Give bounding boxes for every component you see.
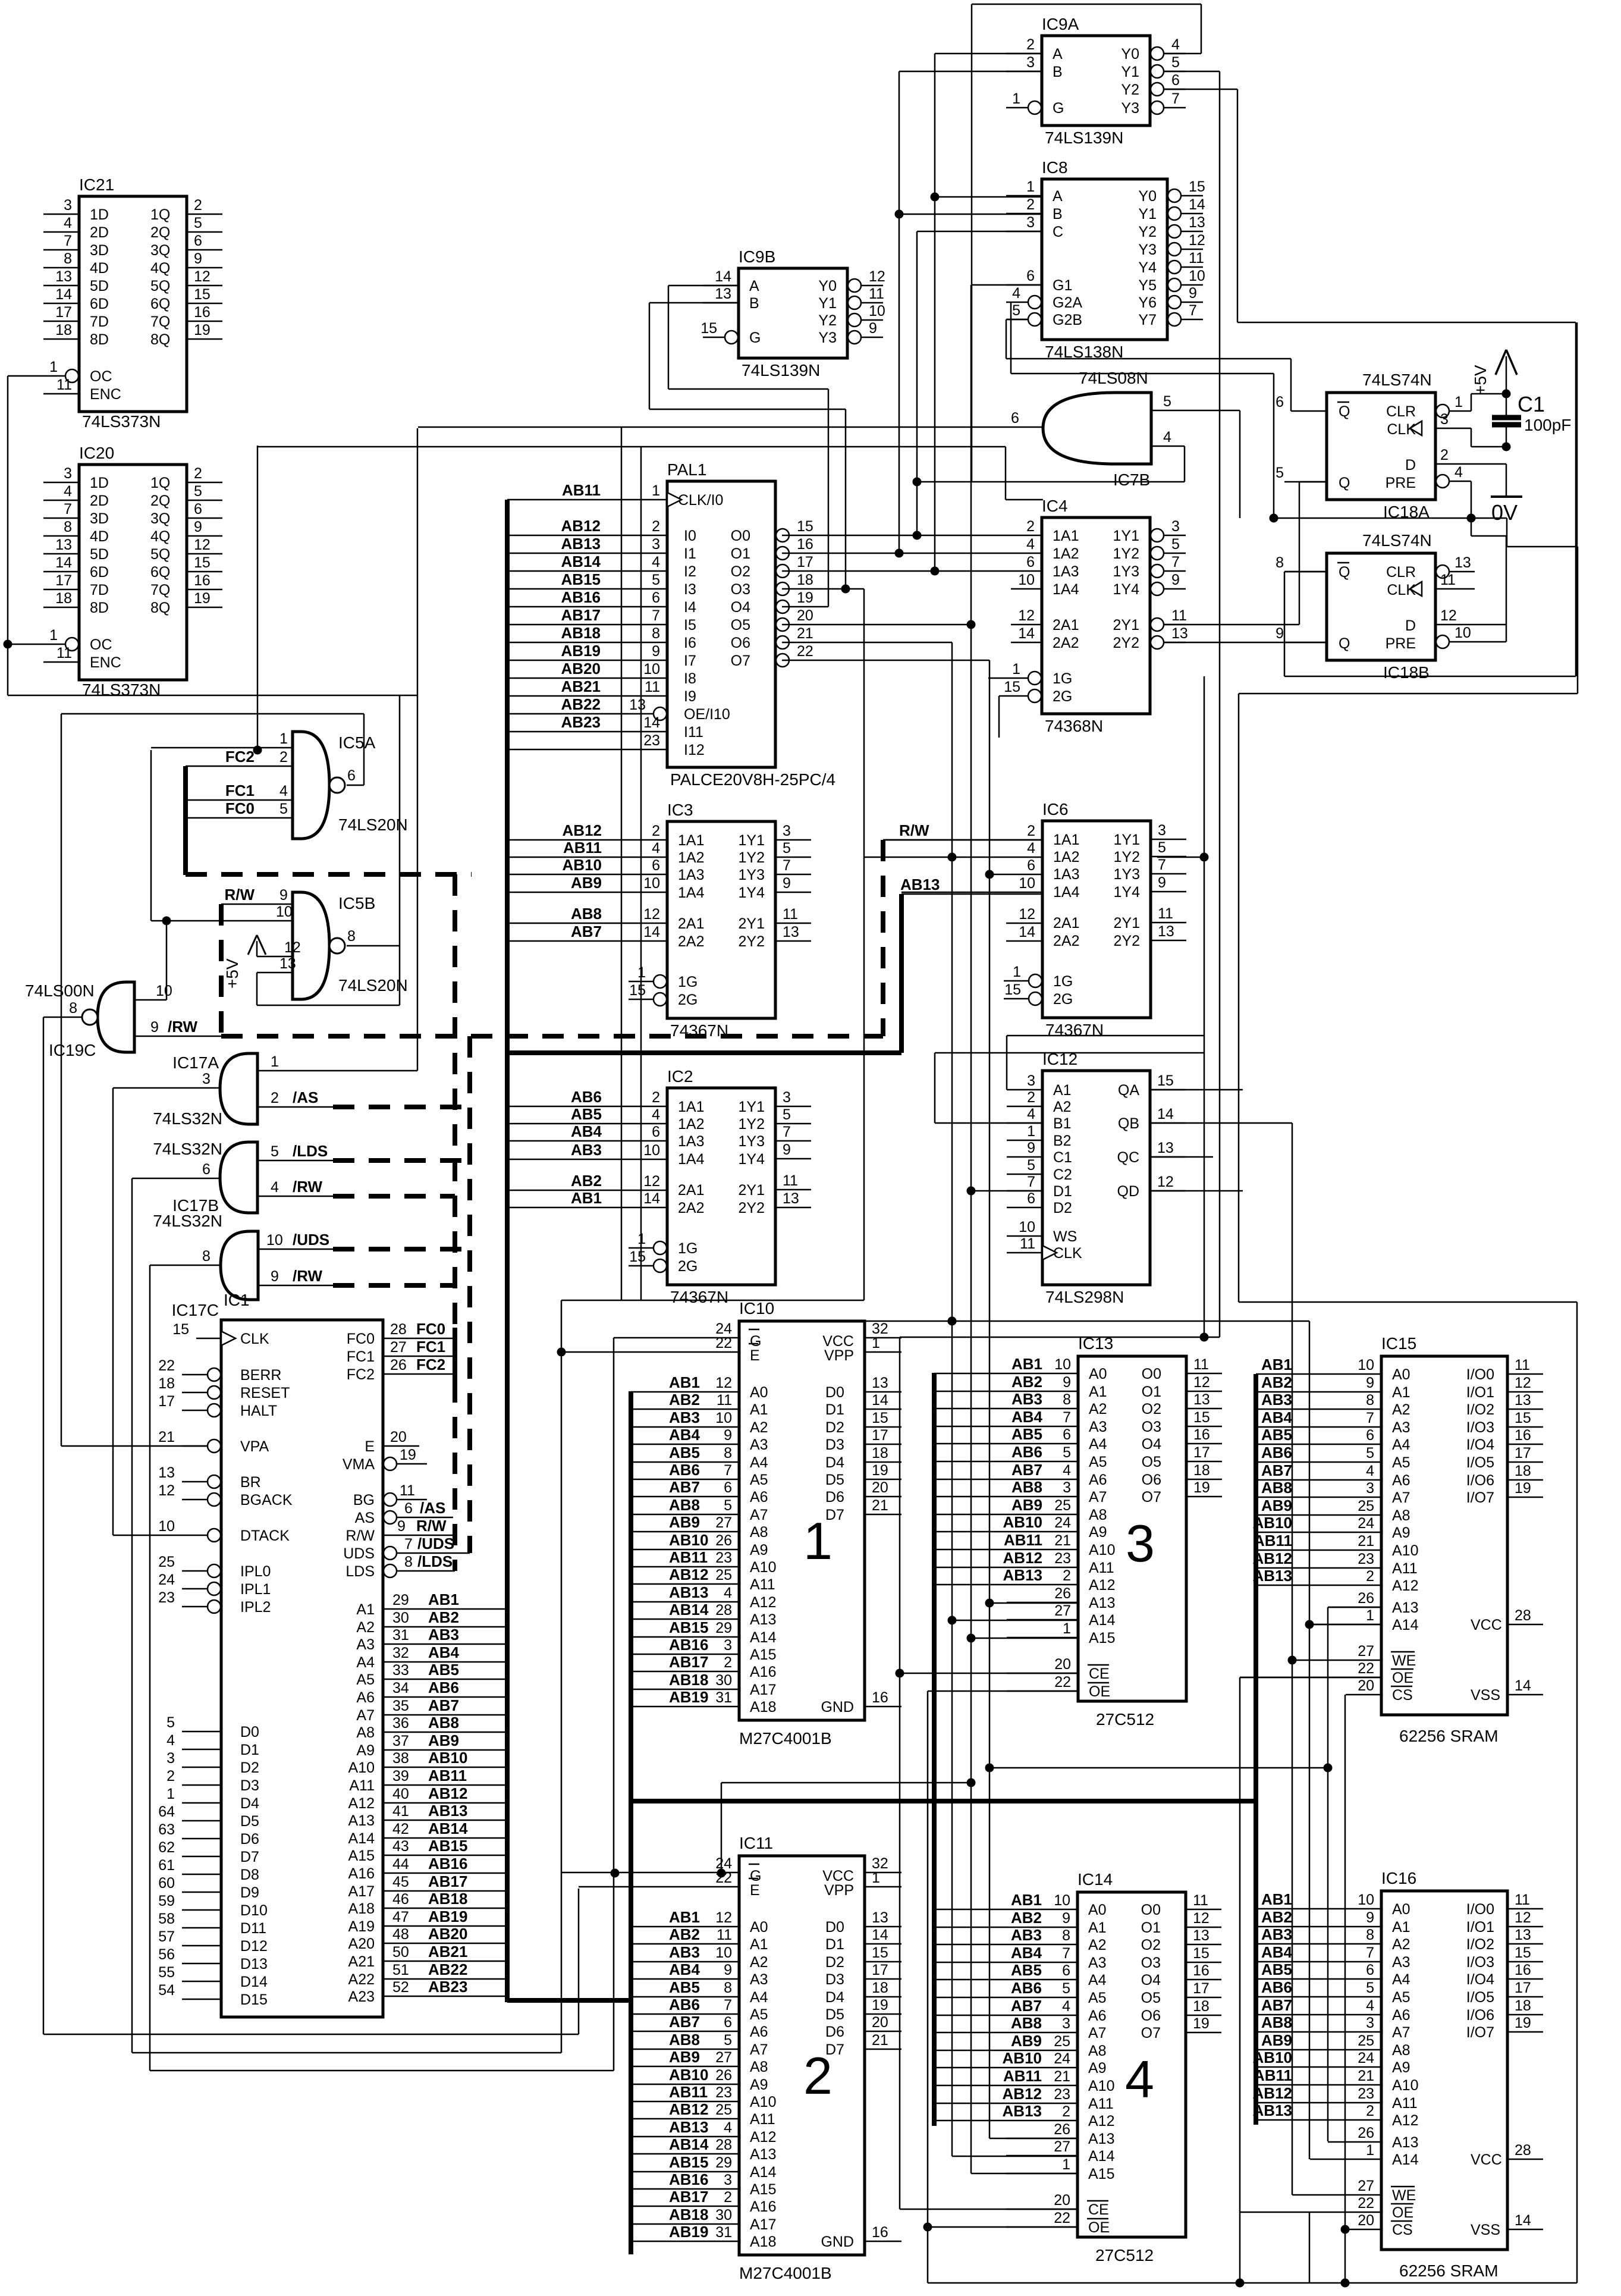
svg-text:2: 2 [652, 518, 660, 535]
svg-text:15: 15 [172, 1321, 189, 1338]
svg-text:24: 24 [1358, 2050, 1374, 2066]
svg-text:IC1: IC1 [224, 1291, 250, 1309]
svg-text:17: 17 [1515, 1445, 1531, 1461]
svg-text:25: 25 [158, 1554, 175, 1570]
svg-text:27: 27 [715, 1514, 732, 1531]
svg-text:2Y1: 2Y1 [1113, 617, 1139, 633]
svg-text:AB13: AB13 [428, 1802, 467, 1820]
svg-text:AB7: AB7 [1261, 1996, 1292, 2014]
svg-text:2Y2: 2Y2 [1113, 635, 1139, 651]
svg-text:D: D [1405, 617, 1416, 634]
svg-text:13: 13 [1158, 923, 1174, 940]
svg-text:3: 3 [724, 1637, 732, 1654]
svg-text:A13: A13 [1088, 2131, 1114, 2147]
svg-text:2A2: 2A2 [1053, 933, 1079, 949]
svg-text:6: 6 [194, 233, 202, 249]
svg-text:A16: A16 [750, 1664, 776, 1680]
svg-text:8Q: 8Q [150, 600, 170, 616]
svg-text:3Q: 3Q [150, 510, 170, 527]
svg-text:1A4: 1A4 [1053, 581, 1079, 598]
svg-text:AB8: AB8 [571, 905, 602, 923]
svg-text:30: 30 [715, 2207, 732, 2223]
svg-text:AB15: AB15 [428, 1837, 467, 1855]
svg-text:A4: A4 [750, 1454, 768, 1471]
svg-text:25: 25 [1358, 2032, 1374, 2049]
svg-text:7: 7 [1063, 1409, 1071, 1426]
svg-text:12: 12 [194, 268, 211, 285]
svg-text:9: 9 [1366, 1375, 1374, 1391]
svg-text:13: 13 [872, 1375, 888, 1391]
svg-text:23: 23 [715, 1550, 732, 1566]
svg-text:5: 5 [724, 1497, 732, 1514]
svg-text:A14: A14 [750, 2164, 777, 2181]
svg-text:5: 5 [1366, 1445, 1374, 1461]
svg-text:1D: 1D [90, 475, 109, 491]
svg-text:12: 12 [1157, 1174, 1174, 1190]
svg-text:1Y3: 1Y3 [1114, 866, 1140, 883]
svg-text:A4: A4 [1392, 1436, 1410, 1453]
svg-text:A14: A14 [1392, 1617, 1419, 1633]
svg-text:10: 10 [1054, 1892, 1070, 1909]
svg-text:3D: 3D [90, 242, 109, 259]
svg-text:5Q: 5Q [150, 546, 170, 563]
svg-text:7: 7 [404, 1536, 413, 1552]
svg-text:AB7: AB7 [669, 1478, 700, 1496]
svg-text:A8: A8 [750, 2059, 768, 2075]
svg-text:16: 16 [194, 304, 211, 321]
svg-text:D0: D0 [825, 1384, 844, 1401]
svg-text:Q: Q [1339, 403, 1350, 420]
svg-text:11: 11 [645, 679, 660, 695]
svg-text:11: 11 [400, 1482, 415, 1499]
svg-text:AB10: AB10 [1003, 2049, 1042, 2067]
svg-text:Q: Q [1339, 475, 1350, 491]
svg-text:AB17: AB17 [669, 1653, 708, 1671]
svg-text:AB5: AB5 [428, 1661, 459, 1679]
svg-text:AB2: AB2 [1261, 1373, 1292, 1391]
svg-text:18: 18 [55, 590, 72, 607]
svg-text:5: 5 [724, 2032, 732, 2049]
svg-text:1A3: 1A3 [1053, 866, 1079, 883]
svg-text:AB9: AB9 [1011, 1496, 1042, 1514]
svg-text:I/O7: I/O7 [1466, 2024, 1494, 2041]
svg-text:16: 16 [872, 1689, 888, 1706]
svg-text:Q: Q [1339, 635, 1350, 652]
svg-text:4D: 4D [90, 260, 109, 277]
svg-text:41: 41 [392, 1803, 409, 1820]
svg-text:CS: CS [1392, 1687, 1413, 1704]
svg-text:+5V: +5V [1471, 365, 1490, 395]
svg-text:17: 17 [1515, 1980, 1531, 1996]
svg-text:13: 13 [783, 1190, 799, 1207]
svg-text:7: 7 [1366, 1944, 1374, 1961]
svg-text:AB11: AB11 [562, 481, 601, 499]
svg-text:A0: A0 [750, 1384, 768, 1401]
svg-text:31: 31 [392, 1627, 409, 1643]
svg-text:10: 10 [266, 1232, 283, 1249]
svg-text:16: 16 [1193, 1426, 1210, 1443]
svg-text:AB3: AB3 [1011, 1390, 1042, 1408]
svg-text:21: 21 [872, 2032, 888, 2049]
svg-text:AB20: AB20 [428, 1925, 467, 1943]
svg-text:VCC: VCC [1471, 1617, 1502, 1633]
svg-text:29: 29 [392, 1592, 409, 1608]
svg-text:O0: O0 [1141, 1902, 1161, 1918]
svg-text:A5: A5 [750, 2006, 768, 2023]
svg-text:10: 10 [869, 303, 885, 319]
svg-text:2: 2 [1440, 447, 1449, 463]
svg-text:AB15: AB15 [669, 2153, 708, 2171]
svg-text:O7: O7 [731, 653, 750, 669]
svg-text:AB12: AB12 [563, 821, 602, 839]
svg-text:VMA: VMA [343, 1456, 375, 1473]
svg-text:O3: O3 [731, 581, 750, 598]
svg-text:AB5: AB5 [571, 1105, 602, 1123]
svg-text:1Y3: 1Y3 [739, 1133, 765, 1150]
svg-text:A13: A13 [750, 2146, 776, 2163]
svg-text:10: 10 [276, 904, 293, 920]
svg-text:R/W: R/W [224, 886, 255, 904]
svg-text:7: 7 [1062, 1945, 1070, 1962]
svg-text:28: 28 [1515, 2142, 1531, 2159]
svg-text:42: 42 [392, 1821, 409, 1837]
svg-text:23: 23 [715, 2084, 732, 2101]
svg-text:C1: C1 [1053, 1149, 1072, 1166]
svg-text:6: 6 [1027, 1190, 1035, 1207]
svg-text:D6: D6 [825, 1489, 844, 1505]
svg-text:AB2: AB2 [1011, 1909, 1042, 1927]
svg-text:1: 1 [803, 1511, 833, 1570]
svg-text:6D: 6D [90, 296, 109, 312]
svg-text:/LDS: /LDS [293, 1142, 328, 1160]
svg-text:14: 14 [55, 554, 72, 571]
svg-text:1A1: 1A1 [1053, 528, 1079, 544]
svg-text:1: 1 [271, 1053, 279, 1070]
svg-text:28: 28 [390, 1321, 407, 1338]
svg-text:RESET: RESET [240, 1385, 290, 1401]
svg-text:2Y1: 2Y1 [739, 915, 765, 932]
svg-text:AB13: AB13 [900, 876, 940, 893]
svg-text:11: 11 [869, 286, 884, 302]
svg-text:A1: A1 [356, 1601, 375, 1618]
svg-text:D7: D7 [240, 1849, 259, 1865]
svg-text:O7: O7 [1141, 2025, 1161, 2041]
svg-text:CLR: CLR [1386, 564, 1416, 581]
svg-text:19: 19 [1515, 2015, 1531, 2031]
svg-text:15: 15 [797, 518, 813, 535]
svg-text:58: 58 [158, 1911, 175, 1927]
svg-text:14: 14 [1515, 1677, 1531, 1694]
svg-text:AB7: AB7 [1261, 1461, 1292, 1479]
svg-text:6: 6 [1026, 268, 1035, 284]
svg-text:A15: A15 [750, 2181, 776, 2198]
svg-text:26: 26 [1054, 2121, 1070, 2138]
svg-text:26: 26 [1054, 1585, 1071, 1602]
svg-text:IC16: IC16 [1381, 1869, 1416, 1887]
svg-text:1Y2: 1Y2 [1113, 545, 1139, 562]
svg-text:31: 31 [715, 2224, 732, 2241]
svg-text:11: 11 [1193, 1356, 1209, 1373]
svg-text:OE: OE [1088, 2219, 1110, 2236]
svg-text:O6: O6 [731, 635, 750, 651]
svg-text:GND: GND [821, 1699, 854, 1715]
svg-text:2G: 2G [678, 1258, 698, 1275]
svg-text:IPL0: IPL0 [240, 1563, 271, 1580]
svg-text:10: 10 [1019, 1219, 1035, 1235]
svg-text:5: 5 [1027, 1157, 1035, 1174]
svg-text:A11: A11 [750, 1576, 775, 1593]
svg-text:CE: CE [1089, 1665, 1110, 1682]
svg-text:14: 14 [643, 714, 660, 731]
svg-text:OE: OE [1392, 2204, 1413, 2221]
svg-text:15: 15 [1515, 1410, 1531, 1426]
svg-text:22: 22 [1054, 2210, 1070, 2226]
svg-text:23: 23 [1054, 1550, 1071, 1567]
svg-text:A10: A10 [348, 1759, 375, 1776]
svg-text:2Q: 2Q [150, 493, 170, 509]
svg-text:AB10: AB10 [563, 856, 602, 874]
svg-text:7: 7 [1171, 554, 1180, 570]
svg-text:G: G [749, 330, 761, 346]
svg-text:AB8: AB8 [1011, 2014, 1042, 2032]
svg-text:FC2: FC2 [347, 1366, 375, 1383]
svg-text:2: 2 [1366, 1568, 1374, 1585]
svg-text:CLR: CLR [1386, 403, 1416, 420]
svg-text:20: 20 [872, 2014, 888, 2031]
svg-text:74LS08N: 74LS08N [1079, 369, 1148, 387]
svg-text:A8: A8 [356, 1724, 375, 1741]
svg-text:R/W: R/W [899, 821, 929, 839]
svg-text:/RW: /RW [293, 1267, 323, 1285]
svg-text:9: 9 [1027, 1140, 1035, 1156]
svg-text:AB11: AB11 [1254, 1532, 1292, 1550]
svg-text:A11: A11 [1392, 2095, 1418, 2112]
svg-text:20: 20 [1358, 2212, 1374, 2229]
svg-text:FC0: FC0 [225, 799, 255, 817]
svg-text:A0: A0 [1088, 1902, 1107, 1918]
svg-text:CE: CE [1088, 2201, 1109, 2218]
svg-text:A0: A0 [1392, 1901, 1410, 1918]
svg-text:2: 2 [652, 823, 660, 839]
svg-text:BG: BG [353, 1492, 375, 1508]
svg-text:AB1: AB1 [428, 1591, 459, 1608]
svg-text:62256 SRAM: 62256 SRAM [1399, 1727, 1499, 1745]
svg-text:D5: D5 [240, 1813, 259, 1830]
svg-text:12: 12 [1440, 607, 1457, 624]
svg-text:20: 20 [1054, 1656, 1071, 1673]
svg-text:74LS373N: 74LS373N [82, 680, 161, 699]
svg-text:VSS: VSS [1471, 1687, 1500, 1704]
svg-text:19: 19 [194, 590, 211, 607]
svg-text:D3: D3 [825, 1436, 844, 1453]
svg-text:46: 46 [392, 1891, 409, 1908]
svg-text:FC1: FC1 [347, 1348, 375, 1365]
svg-text:1Y1: 1Y1 [1114, 832, 1140, 848]
svg-text:A4: A4 [1088, 1972, 1107, 1988]
svg-text:AB7: AB7 [428, 1696, 459, 1714]
svg-text:WE: WE [1392, 2187, 1416, 2204]
svg-text:OE: OE [1392, 1670, 1413, 1686]
svg-text:WE: WE [1392, 1652, 1416, 1669]
svg-text:A8: A8 [1089, 1507, 1107, 1523]
svg-text:AB14: AB14 [561, 553, 601, 570]
svg-text:Y1: Y1 [818, 295, 837, 312]
svg-text:28: 28 [1515, 1607, 1531, 1624]
svg-text:18: 18 [872, 1980, 888, 1996]
svg-text:9: 9 [1366, 1909, 1374, 1926]
svg-text:A16: A16 [348, 1865, 375, 1882]
svg-text:7: 7 [64, 233, 72, 249]
svg-text:D2: D2 [825, 1954, 844, 1971]
svg-text:AB8: AB8 [1011, 1478, 1042, 1496]
svg-text:4: 4 [724, 1585, 732, 1601]
svg-text:14: 14 [1019, 924, 1035, 940]
svg-text:A6: A6 [356, 1689, 375, 1706]
svg-text:AB6: AB6 [669, 1461, 700, 1479]
svg-text:IC4: IC4 [1042, 497, 1068, 515]
svg-text:FC0: FC0 [416, 1320, 445, 1338]
svg-text:Y0: Y0 [1138, 188, 1157, 205]
svg-text:2Q: 2Q [150, 224, 170, 241]
svg-text:AB13: AB13 [669, 2118, 708, 2136]
svg-text:26: 26 [1358, 1590, 1374, 1607]
svg-text:/RW: /RW [293, 1178, 323, 1196]
svg-text:1G: 1G [1053, 670, 1072, 687]
svg-text:A10: A10 [1089, 1542, 1115, 1558]
svg-text:44: 44 [392, 1856, 409, 1872]
svg-text:A7: A7 [750, 1507, 768, 1523]
svg-text:A1: A1 [750, 1401, 768, 1418]
svg-text:A18: A18 [750, 2234, 776, 2250]
svg-text:IC18B: IC18B [1383, 663, 1430, 682]
svg-text:A1: A1 [1392, 1919, 1410, 1936]
svg-text:1: 1 [279, 730, 288, 747]
svg-text:36: 36 [392, 1715, 409, 1732]
svg-text:26: 26 [1358, 2125, 1374, 2141]
svg-text:M27C4001B: M27C4001B [739, 1729, 832, 1748]
svg-text:16: 16 [1193, 1962, 1210, 1979]
svg-text:4: 4 [1366, 1997, 1374, 2014]
svg-text:7D: 7D [90, 582, 109, 598]
svg-text:6: 6 [1062, 1962, 1070, 1979]
svg-text:30: 30 [392, 1610, 409, 1626]
svg-text:A11: A11 [750, 2111, 775, 2128]
svg-text:1A4: 1A4 [678, 1151, 705, 1168]
svg-text:22: 22 [1358, 1660, 1374, 1677]
svg-text:55: 55 [158, 1964, 175, 1981]
svg-text:A11: A11 [1089, 1560, 1114, 1576]
svg-text:26: 26 [715, 1532, 732, 1549]
svg-text:A13: A13 [348, 1812, 375, 1829]
svg-text:10: 10 [156, 983, 172, 999]
svg-text:O6: O6 [1142, 1472, 1161, 1488]
svg-text:23: 23 [643, 732, 660, 749]
svg-text:AB4: AB4 [1011, 1944, 1042, 1962]
svg-text:C2: C2 [1053, 1166, 1072, 1183]
svg-text:2A2: 2A2 [678, 933, 704, 950]
svg-text:AB20: AB20 [561, 660, 601, 677]
svg-text:4: 4 [279, 783, 288, 799]
svg-text:38: 38 [392, 1750, 409, 1767]
svg-text:B: B [1053, 206, 1063, 222]
svg-text:B: B [1053, 64, 1063, 80]
svg-text:AB15: AB15 [561, 570, 601, 588]
svg-text:15: 15 [1189, 178, 1205, 195]
svg-text:AB11: AB11 [669, 2083, 708, 2101]
svg-text:23: 23 [1358, 1551, 1374, 1567]
svg-text:1Y4: 1Y4 [1113, 581, 1140, 598]
svg-text:21: 21 [158, 1429, 175, 1445]
svg-text:AB7: AB7 [1011, 1461, 1042, 1479]
svg-text:7Q: 7Q [150, 313, 170, 330]
svg-text:AB11: AB11 [1004, 1531, 1042, 1549]
svg-text:13: 13 [629, 697, 646, 713]
svg-text:5D: 5D [90, 546, 109, 563]
svg-text:AB9: AB9 [1261, 2031, 1292, 2049]
svg-text:12: 12 [869, 268, 885, 285]
svg-text:A5: A5 [750, 1472, 768, 1488]
svg-text:13: 13 [1515, 1392, 1531, 1409]
svg-text:16: 16 [797, 536, 813, 553]
svg-text:A12: A12 [1392, 2112, 1418, 2129]
svg-text:9: 9 [783, 875, 791, 892]
svg-text:A6: A6 [1392, 1472, 1410, 1489]
svg-text:8D: 8D [90, 600, 109, 616]
svg-text:AB19: AB19 [669, 2223, 708, 2241]
svg-text:2A2: 2A2 [1053, 635, 1079, 651]
svg-text:17: 17 [872, 1962, 888, 1978]
svg-text:1: 1 [1063, 1620, 1071, 1637]
svg-text:I9: I9 [684, 688, 696, 705]
svg-text:AB9: AB9 [1011, 2032, 1042, 2050]
svg-text:1: 1 [1062, 2156, 1070, 2173]
svg-text:A12: A12 [1089, 1577, 1115, 1594]
svg-text:AB21: AB21 [428, 1943, 467, 1961]
svg-text:D4: D4 [825, 1454, 844, 1471]
svg-text:AB4: AB4 [428, 1643, 460, 1661]
svg-text:AB12: AB12 [1253, 1550, 1292, 1567]
svg-text:AB8: AB8 [669, 2031, 700, 2049]
svg-text:1: 1 [872, 1870, 880, 1886]
svg-text:QA: QA [1118, 1082, 1139, 1099]
svg-text:18: 18 [158, 1375, 175, 1392]
svg-text:GND: GND [821, 2234, 854, 2250]
svg-text:74LS32N: 74LS32N [153, 1109, 222, 1128]
svg-text:O5: O5 [1141, 1990, 1161, 2006]
svg-text:21: 21 [1358, 1533, 1374, 1550]
svg-text:13: 13 [55, 268, 72, 285]
svg-text:CLK: CLK [1053, 1245, 1082, 1262]
svg-text:1A4: 1A4 [678, 884, 705, 901]
svg-text:A14: A14 [1088, 2148, 1115, 2165]
svg-text:8: 8 [652, 625, 660, 642]
svg-text:A7: A7 [1392, 2024, 1410, 2041]
svg-text:1Y4: 1Y4 [739, 884, 765, 901]
svg-text:33: 33 [392, 1662, 409, 1679]
svg-text:Y5: Y5 [1138, 277, 1157, 294]
svg-text:3: 3 [1027, 1072, 1035, 1089]
svg-text:4: 4 [724, 2119, 732, 2136]
svg-text:5: 5 [194, 483, 202, 500]
svg-text:A19: A19 [348, 1918, 375, 1935]
svg-text:13: 13 [1193, 1927, 1210, 1944]
svg-text:3: 3 [1440, 411, 1449, 428]
svg-text:4: 4 [167, 1732, 175, 1749]
svg-text:4: 4 [1026, 536, 1035, 553]
svg-text:A15: A15 [348, 1848, 375, 1864]
svg-text:1A1: 1A1 [678, 1099, 704, 1115]
svg-text:27C512: 27C512 [1096, 1710, 1154, 1729]
